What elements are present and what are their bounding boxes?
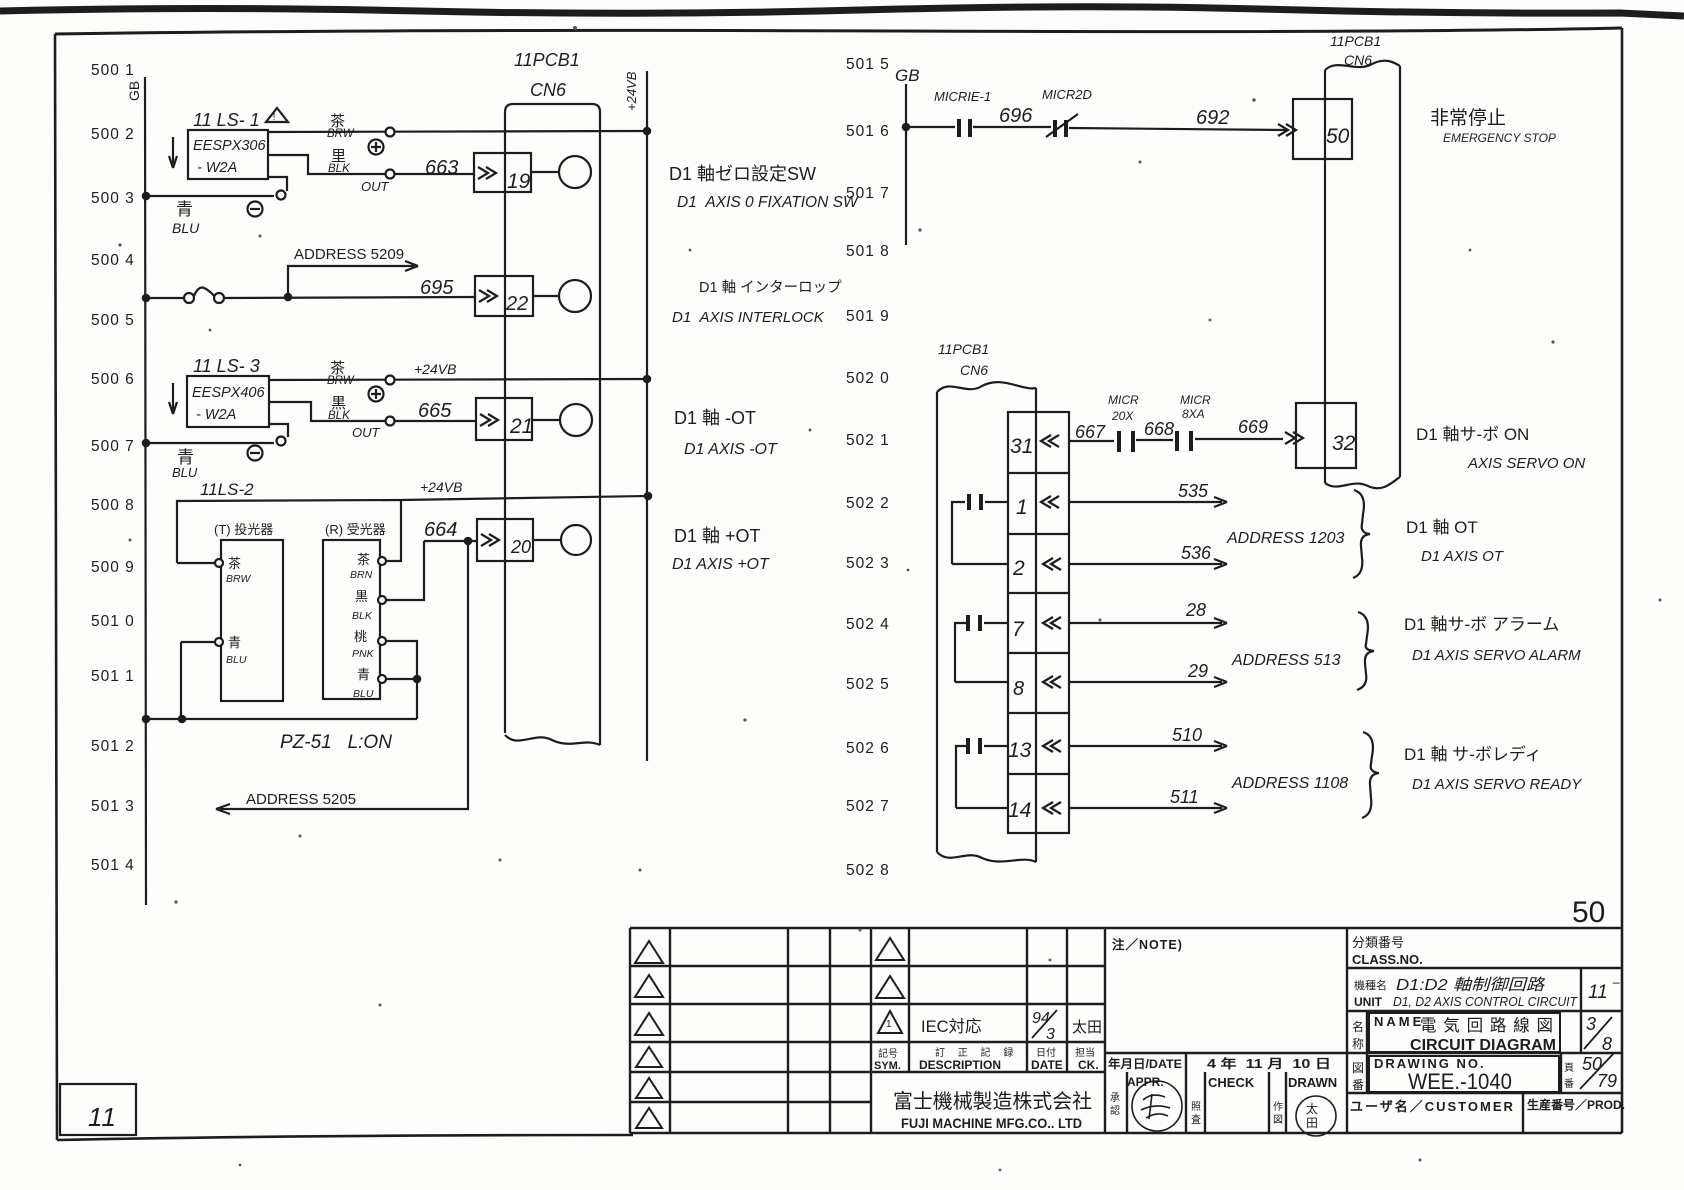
svg-text:14: 14 [1008,799,1031,822]
svg-text:13: 13 [1008,739,1032,762]
svg-text:1: 1 [1016,496,1028,519]
svg-text:501 1: 501 1 [91,668,135,685]
svg-text:IEC対応: IEC対応 [921,1017,982,1036]
svg-text:8: 8 [1013,678,1024,700]
svg-text:21: 21 [509,415,533,438]
svg-text:図: 図 [1273,1114,1283,1126]
svg-text:PNK: PNK [352,648,375,660]
svg-text:青: 青 [228,635,241,650]
svg-text:黒: 黒 [355,589,368,604]
svg-text:667: 667 [1075,422,1106,442]
svg-text:NAME: NAME [1374,1014,1424,1029]
svg-text:7: 7 [1012,618,1025,641]
svg-text:認: 認 [1110,1104,1120,1117]
svg-text:3: 3 [1586,1014,1596,1034]
svg-text:669: 669 [1238,417,1268,437]
svg-text:511: 511 [1170,787,1199,807]
svg-text:502 0: 502 0 [846,370,890,387]
svg-text:11 LS- 3: 11 LS- 3 [193,356,260,376]
svg-text:D1 AXIS SERVO READY: D1 AXIS SERVO READY [1412,776,1582,793]
svg-text:SYM.: SYM. [874,1060,901,1072]
svg-text:D1 軸 サ-ボレディ: D1 軸 サ-ボレディ [1404,744,1542,764]
svg-text:CN6: CN6 [960,362,988,378]
svg-text:BLK: BLK [328,410,351,422]
svg-text:2: 2 [1012,557,1025,580]
svg-text:501 3: 501 3 [91,798,135,815]
svg-text:(R) 受光器: (R) 受光器 [325,522,386,537]
svg-text:502 1: 502 1 [846,432,890,449]
svg-text:名: 名 [1352,1019,1364,1034]
svg-text:668: 668 [1144,419,1174,439]
svg-text:記号: 記号 [878,1047,898,1060]
svg-text:20X: 20X [1111,409,1134,423]
svg-text:502 8: 502 8 [846,862,890,879]
svg-text:501 0: 501 0 [91,613,135,630]
svg-text:11LS-2: 11LS-2 [200,480,254,499]
svg-text:OUT: OUT [352,425,381,440]
svg-text:AXIS SERVO ON: AXIS SERVO ON [1467,455,1585,472]
svg-text:DRAWN: DRAWN [1288,1075,1337,1090]
svg-text:50: 50 [1572,896,1605,929]
svg-text:太: 太 [1306,1101,1318,1116]
svg-text:501 5: 501 5 [846,56,890,73]
svg-text:茶: 茶 [228,556,241,571]
svg-text:502 6: 502 6 [846,740,890,757]
svg-text:MICR: MICR [1108,393,1139,407]
svg-text:+24VB: +24VB [420,479,462,495]
svg-text:D1 軸サ-ボ アラーム: D1 軸サ-ボ アラーム [1404,615,1559,634]
svg-text:ユーザ名／CUSTOMER: ユーザ名／CUSTOMER [1350,1099,1515,1114]
svg-text:502 5: 502 5 [846,676,890,693]
svg-text:79: 79 [1597,1071,1617,1091]
svg-text:FUJI MACHINE MFG.CO.. LTD: FUJI MACHINE MFG.CO.. LTD [901,1115,1082,1131]
svg-text:CHECK: CHECK [1208,1075,1255,1090]
svg-text:510: 510 [1172,725,1202,745]
svg-text:500 5: 500 5 [91,312,135,329]
svg-text:500 9: 500 9 [91,559,135,576]
svg-text:500 2: 500 2 [91,126,135,143]
svg-text:EMERGENCY STOP: EMERGENCY STOP [1443,131,1556,145]
svg-text:!: ! [273,112,276,123]
svg-text:BLK: BLK [328,163,351,175]
svg-text:BLU: BLU [172,220,200,236]
svg-text:502 2: 502 2 [846,495,890,512]
svg-text:4 年 11 月 10 日: 4 年 11 月 10 日 [1207,1056,1331,1071]
svg-text:D1 軸 -OT: D1 軸 -OT [674,408,756,428]
svg-text:+24VB: +24VB [624,71,639,111]
svg-text:502 3: 502 3 [846,555,890,572]
svg-text:EESPX406: EESPX406 [192,385,265,401]
svg-text:11PCB1: 11PCB1 [938,341,989,357]
svg-text:PZ-51 L:ON: PZ-51 L:ON [280,732,392,753]
svg-text:GB: GB [126,81,142,101]
svg-text:D1 AXIS OT: D1 AXIS OT [1421,548,1505,565]
svg-text:500 4: 500 4 [91,252,135,269]
svg-text:OUT: OUT [361,179,390,194]
svg-text:BRW: BRW [327,128,355,140]
svg-text:照: 照 [1191,1101,1201,1113]
svg-text:作: 作 [1273,1101,1283,1113]
svg-text:500 8: 500 8 [91,497,135,514]
svg-text:11: 11 [88,1102,117,1132]
svg-text:500 7: 500 7 [91,438,135,455]
svg-text:ADDRESS 1108: ADDRESS 1108 [1231,775,1348,792]
svg-text:29: 29 [1187,661,1208,681]
svg-text:11 LS- 1: 11 LS- 1 [193,110,260,130]
svg-text:- W2A: - W2A [197,160,237,176]
svg-text:502 7: 502 7 [846,798,890,815]
svg-text:BRN: BRN [350,569,373,581]
svg-text:EESPX306: EESPX306 [193,138,266,154]
svg-text:D1 軸ゼロ設定SW: D1 軸ゼロ設定SW [669,164,816,184]
svg-text:承: 承 [1110,1092,1120,1104]
svg-text:502 4: 502 4 [846,616,890,633]
svg-text:図: 図 [1352,1061,1364,1075]
svg-text:非常停止: 非常停止 [1430,107,1506,129]
svg-text:50: 50 [1326,125,1350,148]
svg-text:501 2: 501 2 [91,738,135,755]
svg-text:D1 AXIS 0 FIXATION SW: D1 AXIS 0 FIXATION SW [677,194,859,211]
svg-text:8XA: 8XA [1182,407,1205,421]
svg-text:桃: 桃 [354,629,367,644]
svg-text:MICR: MICR [1180,393,1211,407]
svg-text:BRW: BRW [226,573,251,585]
svg-text:BLU: BLU [172,465,198,480]
svg-text:BLU: BLU [226,654,247,666]
svg-text:ADDRESS 5209: ADDRESS 5209 [294,246,404,263]
svg-text:GB: GB [895,66,920,85]
svg-text:機種名: 機種名 [1354,978,1387,992]
svg-text:695: 695 [420,277,454,299]
svg-text:663: 663 [425,157,458,179]
svg-text:D1, D2 AXIS CONTROL CIRCUIT: D1, D2 AXIS CONTROL CIRCUIT [1393,995,1578,1009]
svg-text:31: 31 [1010,435,1033,458]
svg-text:665: 665 [418,400,452,422]
svg-text:年月日/DATE: 年月日/DATE [1108,1056,1182,1071]
svg-text:UNIT: UNIT [1354,995,1383,1009]
svg-text:D1 軸 OT: D1 軸 OT [1406,518,1478,537]
svg-text:664: 664 [424,519,457,541]
svg-text:CN6: CN6 [530,80,567,100]
svg-text:D1 AXIS +OT: D1 AXIS +OT [672,556,770,573]
svg-text:D1 AXIS -OT: D1 AXIS -OT [684,441,778,458]
svg-text:BLU: BLU [353,688,374,700]
svg-text:MICR2D: MICR2D [1042,87,1092,102]
svg-text:DESCRIPTION: DESCRIPTION [919,1058,1001,1072]
svg-text:20: 20 [510,537,531,557]
svg-text:500 3: 500 3 [91,190,135,207]
svg-text:8: 8 [1602,1034,1612,1054]
svg-text:- W2A: - W2A [196,407,236,423]
svg-text:BLK: BLK [352,610,373,622]
svg-text:11PCB1: 11PCB1 [514,50,580,70]
svg-text:500 1: 500 1 [91,62,135,79]
svg-text:分類番号: 分類番号 [1352,935,1404,950]
svg-text:称: 称 [1352,1037,1364,1051]
svg-text:D1 AXIS SERVO ALARM: D1 AXIS SERVO ALARM [1412,647,1581,664]
svg-text:ADDRESS 513: ADDRESS 513 [1231,652,1341,669]
svg-text:WEE.-1040: WEE.-1040 [1408,1069,1512,1094]
svg-text:(T) 投光器: (T) 投光器 [214,522,273,537]
svg-text:+24VB: +24VB [414,361,456,377]
svg-text:535: 535 [1178,481,1209,501]
svg-text:501 6: 501 6 [846,123,890,140]
svg-text:D1:D2 軸制御回路: D1:D2 軸制御回路 [1396,976,1546,994]
svg-text:501 4: 501 4 [91,857,135,874]
svg-text:ADDRESS 5205: ADDRESS 5205 [246,791,356,808]
svg-text:D1 軸 +OT: D1 軸 +OT [674,526,761,546]
svg-text:28: 28 [1185,600,1206,620]
svg-text:CK.: CK. [1078,1058,1099,1072]
svg-text:11 ‾: 11 ‾ [1588,982,1620,1003]
svg-text:692: 692 [1196,107,1229,129]
svg-text:94: 94 [1032,1010,1050,1027]
svg-text:ADDRESS 1203: ADDRESS 1203 [1226,530,1344,547]
svg-text:501 8: 501 8 [846,243,890,260]
svg-text:青: 青 [176,200,193,219]
svg-text:1: 1 [886,1019,892,1030]
svg-text:D1 軸 インターロップ: D1 軸 インターロップ [699,279,842,296]
svg-text:APPR.: APPR. [1127,1075,1164,1089]
svg-text:富士機械製造株式会社: 富士機械製造株式会社 [893,1090,1092,1113]
svg-text:青: 青 [357,667,370,682]
svg-text:DATE: DATE [1031,1058,1063,1072]
svg-text:19: 19 [507,170,531,193]
svg-text:CIRCUIT DIAGRAM: CIRCUIT DIAGRAM [1410,1037,1556,1054]
svg-text:注／NOTE): 注／NOTE) [1112,937,1183,952]
svg-text:田: 田 [1306,1116,1318,1130]
svg-text:査: 査 [1191,1113,1201,1126]
svg-text:32: 32 [1332,432,1356,455]
svg-text:BRW: BRW [327,375,355,387]
svg-text:MICRIE-1: MICRIE-1 [934,89,991,104]
svg-text:番: 番 [1564,1078,1574,1090]
svg-text:3: 3 [1046,1026,1055,1043]
svg-text:太田: 太田 [1072,1019,1102,1036]
svg-text:D1 軸サ-ボ ON: D1 軸サ-ボ ON [1416,425,1529,444]
svg-text:500 6: 500 6 [91,371,135,388]
svg-text:CN6: CN6 [1344,52,1372,68]
svg-text:CLASS.NO.: CLASS.NO. [1352,952,1423,967]
svg-text:茶: 茶 [357,552,370,567]
svg-text:番: 番 [1352,1078,1364,1092]
svg-text:生産番号／PROD.: 生産番号／PROD. [1527,1097,1625,1112]
svg-text:D1 AXIS INTERLOCK: D1 AXIS INTERLOCK [672,309,825,326]
svg-text:536: 536 [1181,543,1212,563]
svg-text:22: 22 [505,293,528,315]
svg-text:11PCB1: 11PCB1 [1330,33,1381,49]
svg-text:501 9: 501 9 [846,308,890,325]
svg-text:頁: 頁 [1564,1062,1574,1074]
svg-text:696: 696 [999,105,1033,127]
